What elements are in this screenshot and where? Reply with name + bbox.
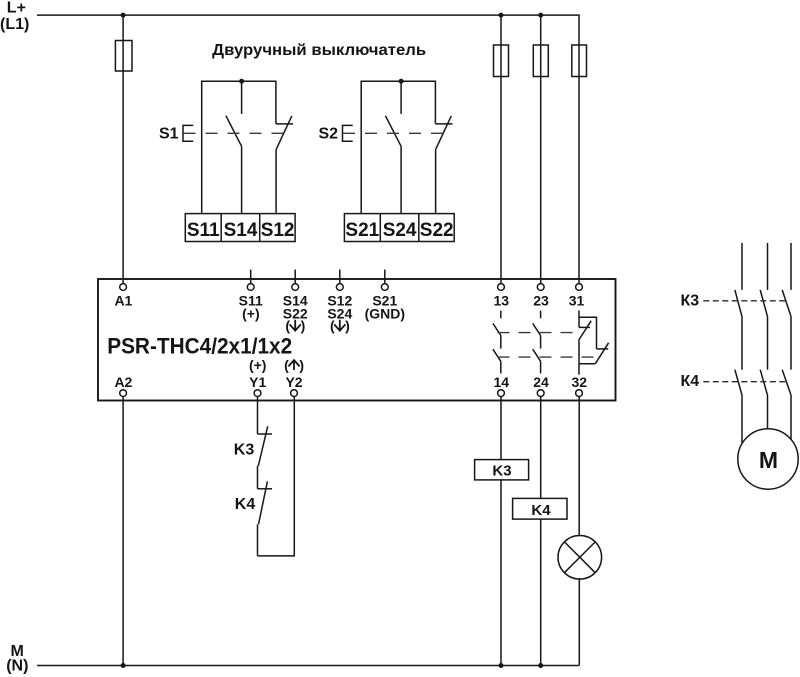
contactor coil K3 [475,460,529,480]
svg-text:31: 31 [569,292,585,308]
wire 24 down to coil K4 [540,397,542,499]
contactor feedback contact K4 (NC) [258,481,273,556]
svg-text:Y2: Y2 [285,374,302,390]
terminal 24 [533,374,549,396]
svg-text:(+): (+) [249,357,267,373]
relay internal contact 23-24 (two NO in series) [533,311,541,374]
switch S2 actuator symbol [343,125,353,141]
svg-text:): ) [299,357,304,373]
fuse F1 (A1 branch) [115,41,132,72]
wire bottom return rail M [37,665,579,667]
svg-text:S12: S12 [261,220,295,241]
svg-text:K3: K3 [492,462,511,479]
terminal 31 [569,284,585,309]
svg-text:A2: A2 [114,374,132,390]
wire motor phase 2 [767,243,769,290]
wire 32 down to indicator lamp [578,397,580,537]
relay internal linkage dashed line 2 [498,356,597,358]
junction node S1 top [239,79,244,84]
junction dot top rail at 23 drop [538,13,543,18]
svg-text:S1: S1 [159,126,179,143]
svg-text:32: 32 [572,374,588,390]
fuse F2 (13 branch) [494,45,509,77]
wire drop to terminal 23 [540,15,542,284]
wire lamp down to bottom rail [578,578,580,666]
switch S1 actuator symbol [183,125,193,141]
svg-text:(+): (+) [242,305,260,321]
relay internal contact 31-32 (two NC in series) [579,310,609,374]
terminal 14 [494,374,510,396]
relay internal contact 13-14 (two NO in series) [493,311,501,374]
node M (N) return labels [6,643,28,674]
svg-text:): ) [345,318,350,334]
wire motor phase 3 [790,243,792,290]
motor M1 [738,429,798,489]
indicator lamp H1 [558,536,602,580]
terminal S12 S24 [327,270,352,334]
switch S2 NO contact (to S24) [385,81,401,213]
junction node S2 top [399,79,404,84]
switch S2 NC contact (to S22) [436,116,453,214]
contactor K3 main contacts (3 x NO) [735,290,791,316]
svg-text:23: 23 [533,292,549,308]
switch S1 NO contact (to S14) [226,81,242,213]
svg-text:A1: A1 [114,292,132,308]
contactor K4 linkage dashed [703,381,788,383]
wire coil K4 down to bottom rail [540,519,542,665]
wire feedback loop bottom back to Y2 [258,397,295,556]
terminal S14 S22 [283,270,308,334]
fuse F4 (31 branch) [572,45,587,77]
svg-text:К4: К4 [681,373,700,390]
svg-text:Двуручный выключатель: Двуручный выключатель [212,42,426,59]
svg-text:M: M [759,447,778,473]
wire motor phase 1 [741,243,743,290]
junction dot bottom rail at A2 drop [121,663,126,668]
wire phase 3 mid [790,316,792,370]
svg-text:13: 13 [494,292,510,308]
svg-text:S2: S2 [319,126,339,143]
relay internal linkage dashed line 1 [498,332,581,334]
terminal Y1 (+) [249,357,267,397]
svg-text:): ) [301,318,306,334]
svg-text:S22: S22 [420,220,454,241]
switch S1 frame wires [202,81,276,213]
svg-text:(: ( [284,357,289,373]
svg-text:S24: S24 [383,220,417,241]
wire phase 1 to motor [741,395,743,444]
wire drop to terminal 13 [500,15,502,284]
junction dot bottom rail at K4 drop [538,663,543,668]
safety relay U1 PSR-THC4/2x1/1x2 outline [98,279,616,401]
svg-text:PSR-THC4/2x1/1x2: PSR-THC4/2x1/1x2 [107,333,292,358]
terminal 32 [572,374,588,396]
wire phase 1 mid [741,316,743,370]
wire drop to terminal 31 [578,45,580,284]
terminal S21 (GND) [365,270,405,322]
terminal A2 [114,374,132,396]
svg-text:K3: K3 [234,441,255,458]
wire left supply drop to A1 [122,15,124,284]
svg-text:S14: S14 [224,220,258,241]
wire A2 down to bottom rail [122,397,124,666]
junction dot bottom rail at K3 drop [499,663,504,668]
svg-text:K4: K4 [235,496,256,513]
svg-text:(N): (N) [6,658,28,675]
terminal box S2 (S21 S24 S22) [344,214,454,242]
svg-text:К3: К3 [681,293,700,310]
wire phase 2 to motor [767,395,769,429]
svg-text:K4: K4 [531,502,551,519]
terminal Y2 (up arrow) [284,357,304,397]
svg-text:Y1: Y1 [249,374,266,390]
svg-text:S21: S21 [345,220,379,241]
terminal A1 [114,284,132,309]
svg-text:(L1): (L1) [0,16,29,33]
terminal 23 [533,284,549,309]
wire top supply rail L+ [37,15,579,45]
terminal box S1 (S11 S14 S12) [185,214,295,242]
fuse F3 (23 branch) [533,45,548,77]
junction dot top rail at 13 drop [499,13,504,18]
wire coil K3 down to bottom rail [500,480,502,666]
contactor K3 linkage dashed [703,300,788,302]
svg-text:L+: L+ [7,0,26,16]
node L+ (L1) supply labels [0,0,29,33]
contactor feedback contact K3 (NC) [258,426,273,489]
contactor K4 main contacts (3 x NO) [735,370,791,395]
switch S2 frame wires [361,81,435,213]
wire phase 2 mid [767,316,769,370]
svg-text:14: 14 [494,374,510,390]
switch S1 NC contact (to S12) [276,116,293,214]
wire phase 3 to motor [790,395,792,440]
switch S1 actuator dashed link [184,132,284,134]
switch S2 actuator dashed link [343,132,443,134]
junction dot top rail at left drop [121,13,126,18]
svg-text:(GND): (GND) [365,305,405,321]
wire Y1 down to K3 feedback contact [257,397,259,435]
terminal S11 (+) [239,270,263,322]
wire 14 down to coil K3 [500,397,502,460]
svg-text:S11: S11 [187,220,220,241]
contactor coil K4 [513,498,567,519]
svg-text:24: 24 [533,374,549,390]
terminal 13 [494,284,510,309]
